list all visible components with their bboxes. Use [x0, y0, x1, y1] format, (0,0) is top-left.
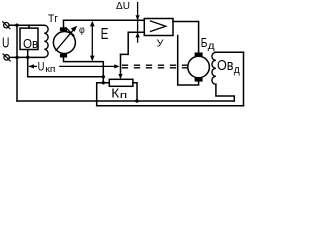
wire B amplifier lower input from wiper: [121, 32, 145, 54]
wire Ov bottom vertical through node C: [27, 50, 29, 77]
wire amplifier output bottom to motor bottom brush: [178, 36, 199, 86]
svg-text:У: У: [157, 37, 164, 49]
wire right edge vertical: [243, 52, 245, 106]
E annotation double arrow: [91, 23, 93, 60]
svg-text:Тг: Тг: [48, 13, 58, 25]
svg-text:Ов: Ов: [23, 36, 38, 51]
coil Tg field winding: [44, 25, 48, 57]
op-amp box U (amplifier): [144, 19, 173, 36]
wire horizontal to potentiometer left node: [28, 76, 104, 78]
svg-text:Ов: Ов: [217, 57, 234, 74]
wire Tg top brush up and right to amplifier (wire A): [64, 20, 145, 27]
svg-text:ΔU: ΔU: [116, 0, 130, 12]
wire bottom supply rail to Tg coil: [17, 56, 44, 58]
svg-text:Б: Б: [201, 36, 208, 50]
svg-text:К: К: [111, 86, 120, 100]
svg-text:кп: кп: [45, 64, 55, 74]
terminal X2 (bottom supply terminal): [3, 54, 10, 61]
node A junction dot: [15, 24, 18, 27]
shaft arrow phi: [56, 28, 75, 50]
motor Bd machine circle: [188, 56, 210, 78]
wire left vertical down to rail 1: [16, 25, 18, 101]
Ukp annotation arrows: [30, 65, 118, 67]
potentiometer wiper arrow: [120, 54, 122, 74]
svg-text:п: п: [120, 90, 128, 101]
svg-text:U: U: [38, 60, 45, 74]
node B junction dot: [15, 56, 18, 59]
wire rail 1 bottom horizontal: [17, 100, 234, 102]
svg-text:E: E: [101, 26, 109, 43]
node C junction dot: [26, 56, 29, 59]
mechanical coupling dashed line upper: [123, 64, 188, 66]
motor brush top: [195, 53, 203, 57]
wire X2 to node B: [9, 56, 17, 58]
node E1 junction dot: [102, 75, 105, 78]
wire coil bottom jog to rail 1: [216, 84, 234, 101]
Tg brush top: [60, 27, 67, 31]
wire amplifier output top to motor top brush: [173, 22, 199, 53]
wire coil top to right edge: [215, 51, 244, 53]
tachogenerator Tg machine circle: [53, 32, 75, 54]
svg-text:φ: φ: [79, 24, 85, 36]
delta U annotation vertical with facing arrows: [137, 3, 139, 43]
potentiometer box Kp: [109, 79, 133, 86]
wire pot right end down to rail 1: [133, 83, 137, 101]
svg-text:д: д: [208, 40, 215, 52]
Tg brush bottom: [60, 54, 67, 58]
resistor box Ov (excitation winding of tachogenerator): [20, 28, 38, 49]
coil OVd motor field winding: [212, 52, 216, 84]
wire pot left end to rail 2: [97, 83, 110, 106]
wire Tg bottom brush down right and down to pot node: [64, 58, 104, 83]
node D pot right on rail 1: [135, 99, 138, 102]
wire rail 2: [97, 105, 244, 107]
motor brush bottom: [195, 78, 203, 82]
wire X1 to node A: [9, 24, 17, 26]
wire stub Ov top: [28, 25, 30, 28]
mechanical coupling dashed line lower: [123, 67, 188, 69]
wire top supply rail to Tg coil: [17, 24, 44, 26]
terminal X1 (top supply terminal): [3, 22, 10, 29]
svg-text:U: U: [2, 34, 9, 51]
svg-text:д: д: [234, 64, 241, 76]
node E2 junction dot: [102, 81, 105, 84]
amplifier chevron: [151, 21, 166, 31]
